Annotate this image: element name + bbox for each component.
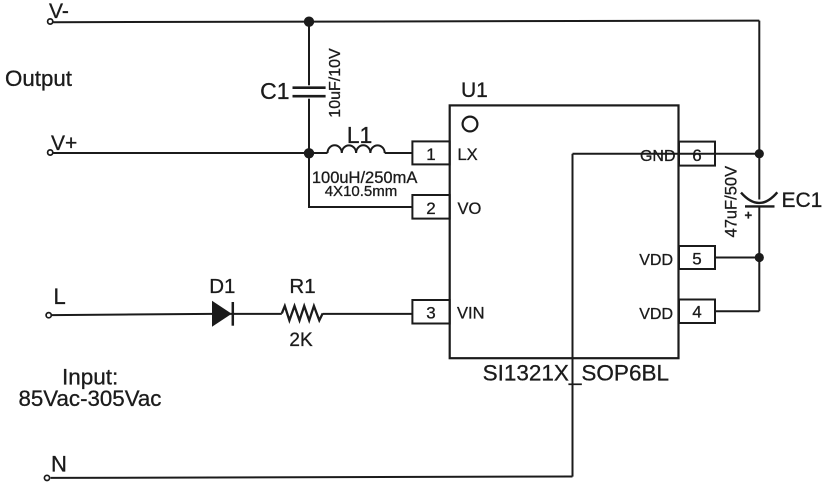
svg-text:Output: Output: [5, 66, 73, 91]
svg-text:10uF/10V: 10uF/10V: [327, 48, 344, 118]
capacitor EC1 straight plate: [745, 205, 775, 207]
diode D1: [212, 301, 233, 327]
svg-text:3: 3: [426, 304, 435, 323]
svg-text:2: 2: [426, 199, 435, 218]
pin 3 box: [412, 300, 449, 324]
svg-text:+: +: [745, 208, 753, 223]
svg-text:85Vac-305Vac: 85Vac-305Vac: [19, 386, 162, 411]
wire L to resistor: [52, 314, 282, 315]
svg-text:VDD: VDD: [639, 306, 673, 323]
wire V+ junction down to VO: [309, 153, 412, 207]
svg-text:SI1321X_SOP6BL: SI1321X_SOP6BL: [483, 361, 669, 386]
svg-text:V+: V+: [51, 132, 77, 155]
svg-text:VO: VO: [458, 200, 482, 218]
svg-text:47uF/50V: 47uF/50V: [723, 166, 741, 238]
wire R1 to pin 3: [323, 313, 413, 315]
wire V- rail: [53, 21, 759, 23]
svg-text:R1: R1: [289, 275, 315, 298]
terminal V-: [48, 19, 53, 24]
op-amp U1 body: [450, 105, 679, 358]
svg-text:VIN: VIN: [457, 305, 485, 323]
wire right rail top segment: [758, 21, 760, 200]
svg-text:4: 4: [692, 303, 701, 322]
wire N rail: [51, 477, 573, 478]
svg-text:2K: 2K: [289, 330, 313, 351]
wire pin 5 to rail: [715, 257, 759, 259]
node junction V+ / C1 bottom: [304, 148, 314, 158]
pin 4 box: [679, 300, 715, 324]
inductor L1: [328, 145, 385, 153]
capacitor C1: [293, 88, 326, 97]
svg-text:5: 5: [692, 250, 701, 269]
pin 6 box: [679, 142, 715, 166]
node junction C1 top: [304, 17, 314, 27]
wire L1 to pin 1: [385, 152, 413, 154]
svg-text:6: 6: [692, 146, 701, 165]
svg-text:LX: LX: [458, 146, 478, 164]
svg-text:4X10.5mm: 4X10.5mm: [325, 183, 398, 200]
pin 1 indicator circle: [463, 117, 478, 132]
svg-text:L1: L1: [347, 122, 373, 148]
resistor R1: [282, 306, 323, 320]
pin 2 box: [412, 195, 449, 219]
svg-text:1: 1: [426, 145, 435, 164]
svg-text:V-: V-: [49, 0, 69, 23]
wire C1 top lead: [308, 22, 310, 86]
svg-text:EC1: EC1: [782, 189, 823, 212]
wire pin 4 to rail: [715, 310, 759, 312]
svg-text:L: L: [54, 284, 66, 309]
node junction GND / EC1: [755, 149, 764, 158]
svg-text:VDD: VDD: [639, 252, 673, 269]
pin 1 box: [412, 141, 449, 164]
terminal L: [46, 313, 51, 318]
svg-text:U1: U1: [461, 79, 488, 102]
svg-text:D1: D1: [209, 275, 235, 298]
wire GND net inside U1: [573, 153, 760, 155]
wire right rail bottom segment: [758, 206, 760, 311]
capacitor EC1 curved plate: [741, 192, 777, 203]
svg-text:N: N: [51, 451, 67, 476]
pin 5 box: [679, 246, 715, 269]
terminal N: [44, 475, 49, 480]
wire N net vertical: [572, 154, 574, 477]
wire C1 bottom lead: [308, 99, 310, 153]
svg-text:C1: C1: [260, 78, 289, 104]
node junction pin5 rail: [755, 253, 764, 262]
terminal V+: [48, 150, 53, 155]
wire V+ rail: [53, 152, 327, 154]
svg-text:GND: GND: [640, 148, 676, 165]
